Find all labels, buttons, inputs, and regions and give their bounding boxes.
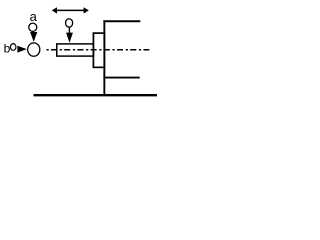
ground base line (34, 94, 158, 96)
arrow from a into summing circle (30, 32, 37, 42)
arrow from c onto plunger shaft (68, 27, 70, 33)
plunger rectangle (57, 44, 94, 56)
input port circle b (10, 44, 16, 51)
motion double arrow shaft (57, 9, 85, 11)
summing circle (driver) (28, 43, 40, 56)
arrow from b into summing circle (17, 46, 27, 53)
axis centerline (dash-dot) (47, 49, 150, 51)
wall vertical line (103, 20, 105, 96)
svg-text:a: a (30, 9, 38, 24)
svg-text:b: b (4, 41, 11, 55)
input port circle a (29, 23, 37, 31)
socket block on wall (93, 33, 104, 67)
motion double arrow right head (84, 7, 89, 13)
motion double arrow left head (52, 7, 57, 13)
wall top flange line (103, 20, 140, 22)
arrow from c onto plunger head (66, 33, 73, 43)
wall middle flange line (103, 77, 139, 79)
force port circle c (66, 19, 73, 27)
